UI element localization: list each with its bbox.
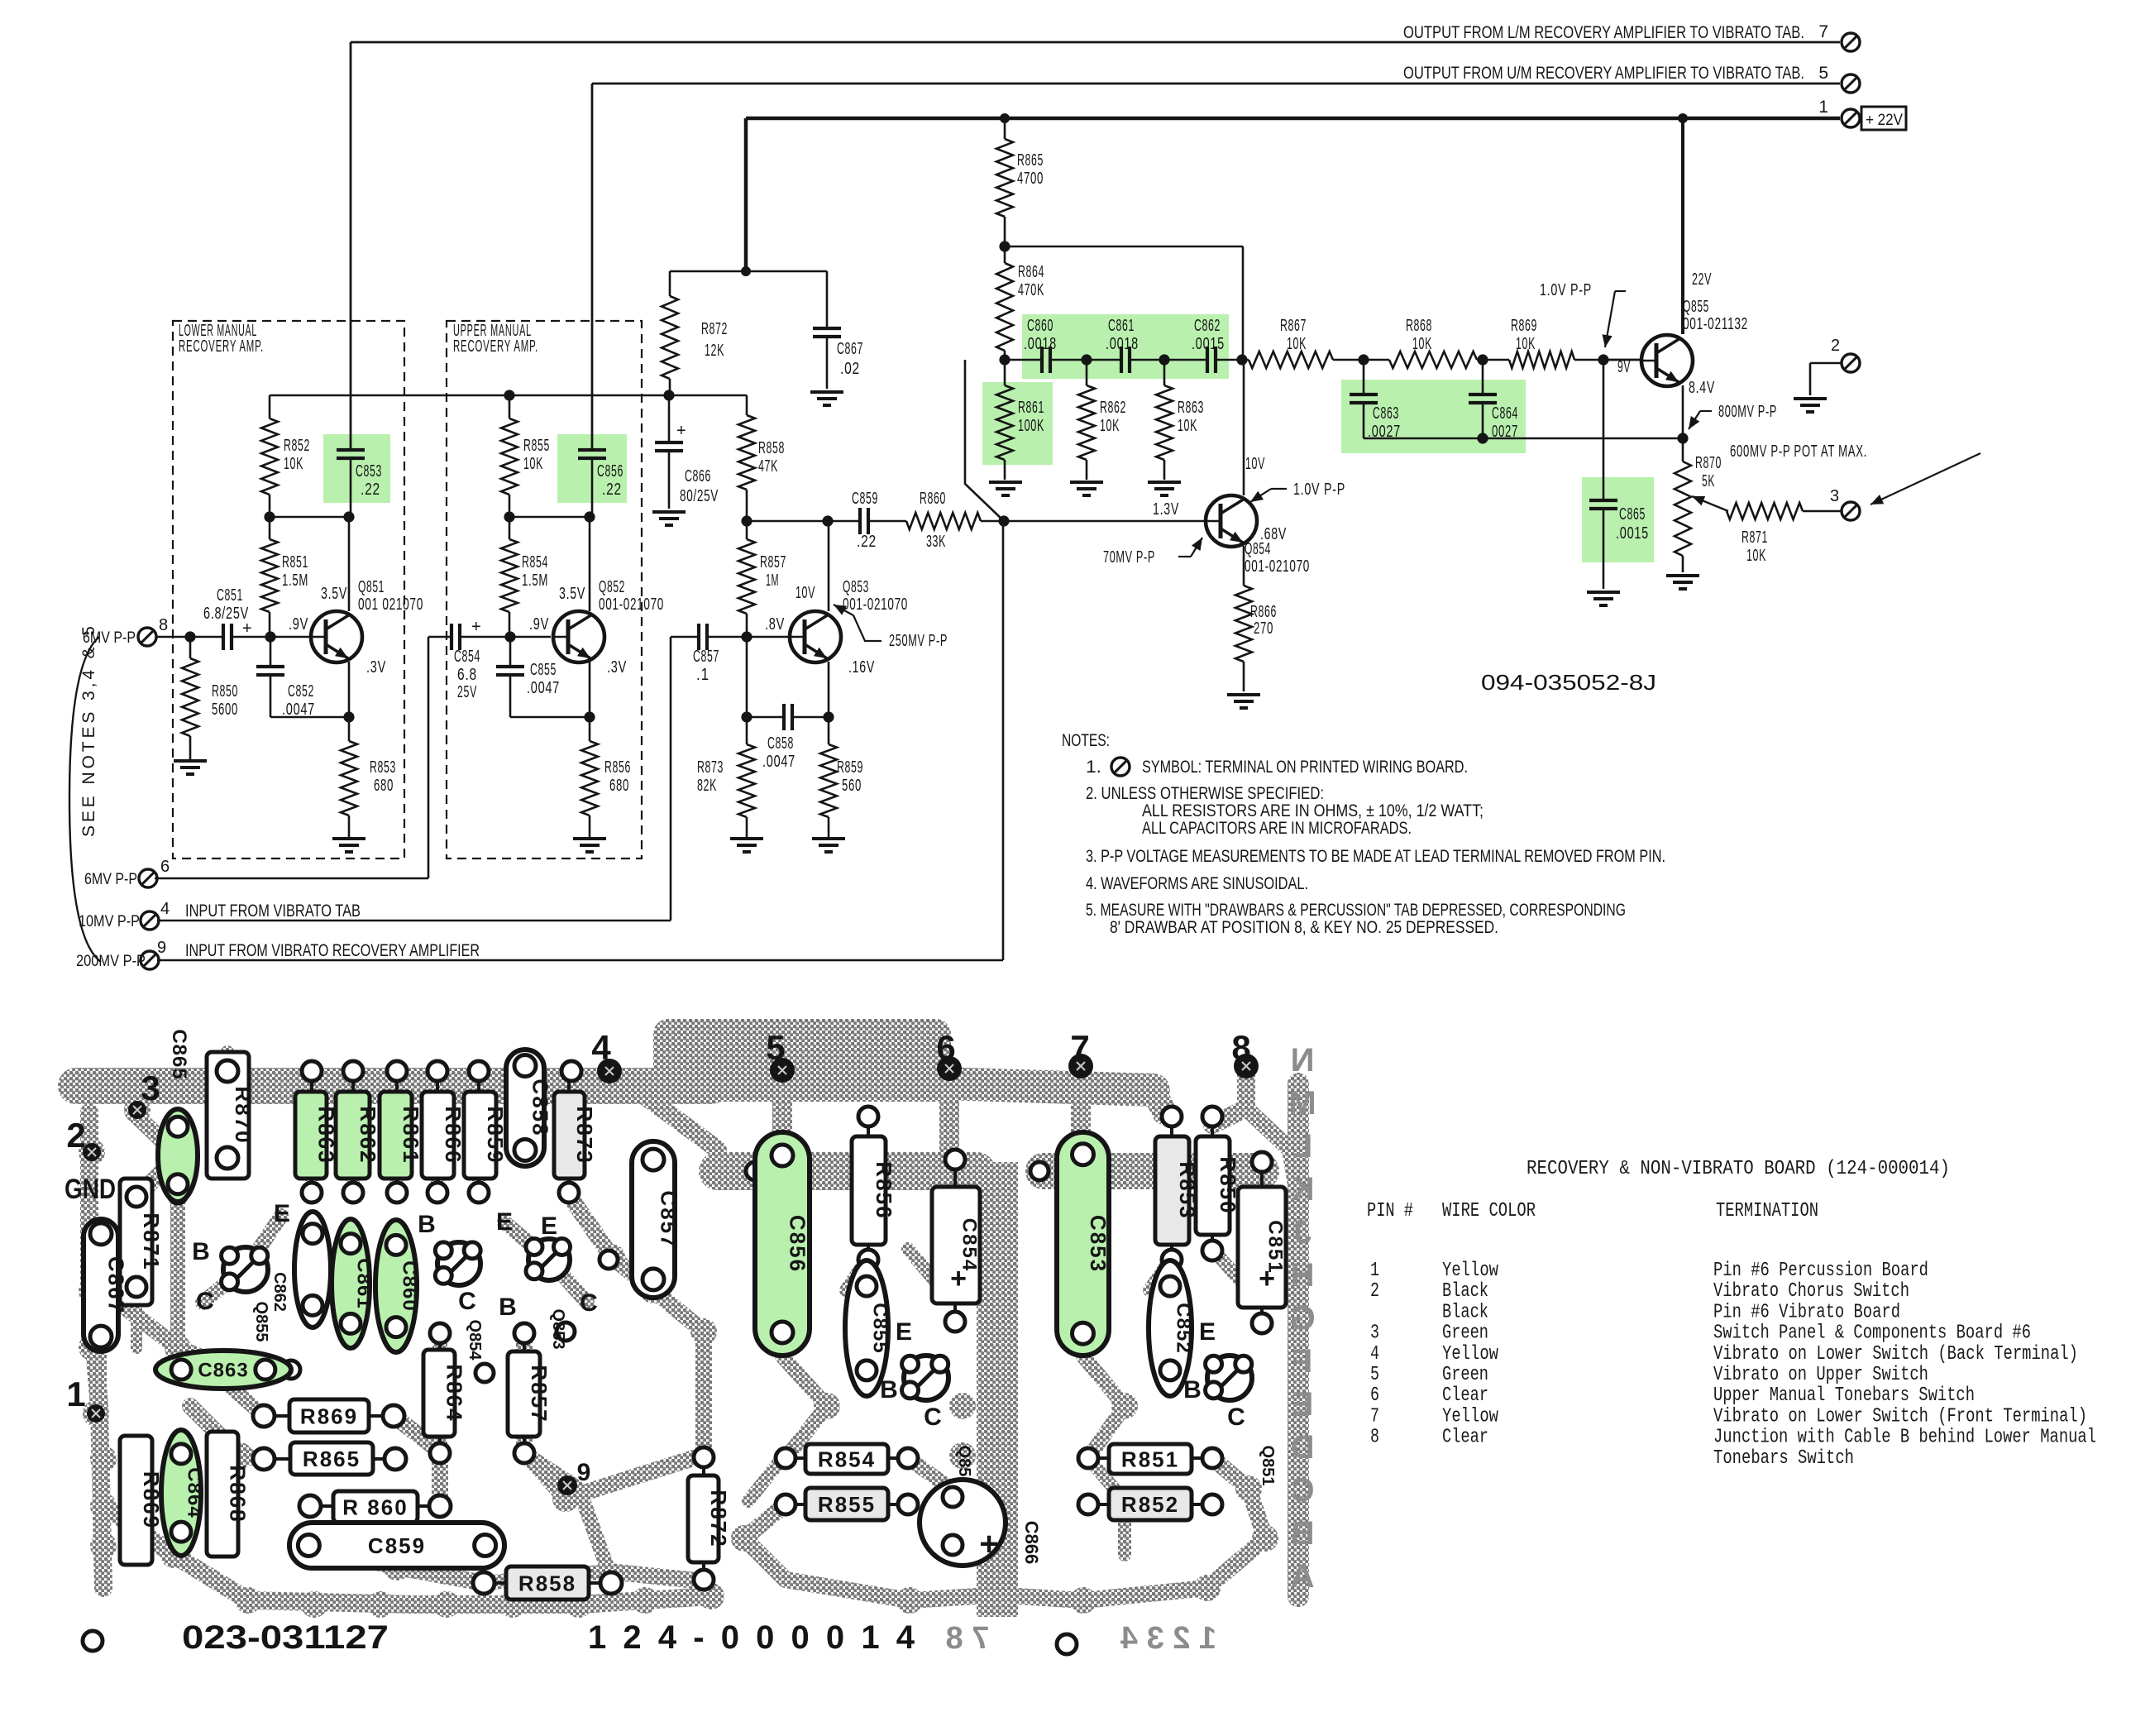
svg-text:5: 5 <box>1818 64 1829 83</box>
ground R861 <box>989 481 1022 484</box>
svg-text:5: 5 <box>1370 1364 1379 1386</box>
svg-text:INPUT FROM VIBRATO RECOVERY AM: INPUT FROM VIBRATO RECOVERY AMPLIFIER <box>185 941 480 960</box>
svg-text:8: 8 <box>1231 1028 1250 1067</box>
svg-text:3.5V: 3.5V <box>559 585 585 603</box>
wire input 8 <box>157 636 223 638</box>
PCB pad 5 <box>770 1058 795 1083</box>
node filter input <box>999 354 1010 365</box>
node base Q851 <box>265 631 275 642</box>
resistor R862 <box>1086 360 1088 385</box>
PCB mirrored numbers <box>946 1621 1217 1656</box>
svg-text:C864: C864 <box>1492 404 1518 423</box>
svg-text:R864: R864 <box>1018 263 1044 281</box>
terminal 2 <box>1842 354 1860 372</box>
svg-text:C859: C859 <box>852 490 878 508</box>
PCB capacitor C851 <box>1238 1187 1286 1308</box>
svg-text:1.5M: 1.5M <box>282 571 308 590</box>
svg-text:+: + <box>471 618 482 636</box>
svg-text:C860: C860 <box>1027 317 1053 335</box>
svg-text:6: 6 <box>936 1028 955 1067</box>
svg-text:Q854: Q854 <box>466 1320 484 1361</box>
svg-text:Pin #6 Percussion Board: Pin #6 Percussion Board <box>1713 1260 1928 1282</box>
svg-text:001-021070: 001-021070 <box>599 595 664 614</box>
svg-text:4: 4 <box>160 900 170 918</box>
svg-text:R860: R860 <box>920 490 946 508</box>
svg-text:.0047: .0047 <box>762 753 795 771</box>
resistor R853 <box>348 717 351 741</box>
svg-text:Vibrato on Lower Switch (Back: Vibrato on Lower Switch (Back Terminal) <box>1713 1343 2078 1365</box>
node C856 bottom <box>584 511 595 522</box>
svg-text:1M: 1M <box>766 571 779 590</box>
svg-text:R856: R856 <box>604 758 631 777</box>
PCB pad 4 <box>597 1059 622 1083</box>
svg-text:R858: R858 <box>518 1571 576 1595</box>
svg-text:R856: R856 <box>872 1161 896 1219</box>
svg-text:.22: .22 <box>602 481 622 499</box>
svg-text:WIRE COLOR: WIRE COLOR <box>1442 1200 1536 1222</box>
PCB resistor R864 <box>423 1350 455 1437</box>
PCB capacitor C854 <box>932 1187 980 1303</box>
node R851 top <box>264 511 275 522</box>
svg-text:7: 7 <box>1070 1028 1089 1067</box>
svg-text:+: + <box>979 1526 998 1562</box>
resistor R854 <box>509 517 511 539</box>
svg-text:Pin #6 Vibrato Board: Pin #6 Vibrato Board <box>1713 1301 1900 1323</box>
wire C855 to emitter <box>510 716 590 719</box>
ground R870 <box>1666 574 1699 577</box>
svg-text:5K: 5K <box>1702 472 1715 490</box>
wire emitter Q853 <box>828 662 830 717</box>
wire cap chain <box>1005 359 1042 361</box>
svg-text:TERMINATION: TERMINATION <box>1716 1200 1818 1222</box>
capacitor C867 <box>826 271 829 328</box>
svg-text:Tonebars Switch: Tonebars Switch <box>1713 1447 1854 1470</box>
svg-text:GND: GND <box>64 1174 116 1205</box>
svg-text:NOTES:: NOTES: <box>1062 731 1110 750</box>
svg-text:8.4V: 8.4V <box>1689 379 1715 397</box>
PCB resistor R851 <box>1109 1444 1192 1474</box>
highlight C856 <box>557 434 627 503</box>
svg-text:R871: R871 <box>139 1212 164 1270</box>
wire collector Q851 <box>348 517 351 611</box>
svg-text:4700: 4700 <box>1017 170 1044 188</box>
ground R853 <box>332 837 365 840</box>
svg-text:C866: C866 <box>685 467 711 485</box>
svg-text:C857: C857 <box>693 648 719 666</box>
svg-text:R851: R851 <box>282 553 308 571</box>
svg-text:Switch Panel & Components Boar: Switch Panel & Components Board #6 <box>1713 1322 2031 1345</box>
svg-text:Q853: Q853 <box>843 578 869 596</box>
PCB capacitor C858 <box>506 1050 544 1166</box>
svg-text:B: B <box>1291 1515 1315 1552</box>
wire emitter Q852 <box>589 662 591 717</box>
svg-text:Vibrato on Upper Switch: Vibrato on Upper Switch <box>1713 1364 1928 1386</box>
svg-text:6: 6 <box>1370 1384 1379 1407</box>
PCB resistor R862 <box>336 1092 370 1179</box>
svg-text:Q855: Q855 <box>252 1302 270 1342</box>
svg-text:7 8: 7 8 <box>946 1621 990 1656</box>
resistor R852 <box>269 395 271 418</box>
svg-text:.0015: .0015 <box>1616 524 1649 543</box>
wire junction row stage1 <box>270 516 349 519</box>
svg-text:200MV P-P: 200MV P-P <box>76 953 146 970</box>
svg-text:R868: R868 <box>225 1465 250 1523</box>
wire input stage3 <box>707 636 790 638</box>
svg-text:R869: R869 <box>1511 317 1537 335</box>
wire input 9 riser <box>157 959 1003 962</box>
svg-text:1: 1 <box>66 1375 85 1413</box>
resistor R860 <box>906 513 981 529</box>
svg-text:J: J <box>1293 1214 1311 1251</box>
node R854 top <box>504 511 514 522</box>
arrow 1.0V P-P at Q854 <box>1271 488 1287 490</box>
highlight C863 C864 <box>1341 380 1526 453</box>
wire emitter Q855 <box>1682 385 1684 438</box>
capacitor C866 <box>668 395 671 442</box>
PCB pad 2 <box>83 1143 101 1161</box>
dashed box lower manual recovery amp <box>173 321 404 858</box>
node R867 R868 C863 <box>1358 354 1369 365</box>
capacitor C853 <box>337 448 365 452</box>
transistor Q853 <box>790 611 841 662</box>
svg-text:R852: R852 <box>284 437 310 455</box>
svg-text:R858: R858 <box>758 439 785 457</box>
PCB resistor R861 <box>380 1092 412 1179</box>
svg-text:001-021070: 001-021070 <box>843 595 908 614</box>
svg-text:680: 680 <box>609 777 629 795</box>
svg-text:C867: C867 <box>103 1256 128 1314</box>
svg-text:.0018: .0018 <box>1106 335 1139 353</box>
terminal 6 <box>139 869 157 887</box>
resistor R869 <box>1509 352 1574 368</box>
svg-text:.8V: .8V <box>765 615 785 634</box>
svg-text:C857: C857 <box>656 1190 681 1248</box>
wire collector Q854 <box>1243 360 1245 495</box>
resistor R859 <box>828 717 830 744</box>
svg-text:C856: C856 <box>785 1215 810 1273</box>
svg-text:4: 4 <box>591 1028 611 1067</box>
svg-text:10K: 10K <box>1746 547 1766 565</box>
capacitor C854 <box>450 624 453 650</box>
ground R856 <box>573 837 606 840</box>
ground R863 <box>1148 481 1181 484</box>
resistor R856 <box>589 717 591 741</box>
PCB pad 3 <box>128 1101 146 1119</box>
PCB capacitor C860 <box>375 1220 417 1352</box>
svg-text:8' DRAWBAR AT POSITION 8, & KE: 8' DRAWBAR AT POSITION 8, & KEY NO. 25 D… <box>1110 918 1498 937</box>
svg-text:.0018: .0018 <box>1024 335 1057 353</box>
emitter network stage3 <box>747 716 784 719</box>
svg-text:4: 4 <box>1370 1343 1379 1365</box>
resistor R872 <box>669 271 671 296</box>
PCB resistor R852 <box>1109 1488 1192 1520</box>
svg-text:R857: R857 <box>527 1365 552 1423</box>
PCB capacitor C866 <box>920 1480 1006 1566</box>
PCB trace beads <box>79 1097 1278 1618</box>
wire feedback riser to filter node <box>965 360 1004 521</box>
svg-text:7: 7 <box>1370 1405 1379 1428</box>
svg-text:Green: Green <box>1442 1322 1488 1345</box>
svg-text:G: G <box>1289 1300 1315 1337</box>
node input R850 <box>184 631 195 642</box>
svg-text:6.8/25V: 6.8/25V <box>203 605 249 623</box>
svg-text:3.5V: 3.5V <box>321 585 347 603</box>
svg-text:82K: 82K <box>697 777 717 795</box>
highlight C860 C861 C862 <box>1022 314 1229 379</box>
svg-text:1.: 1. <box>1086 758 1101 777</box>
svg-text:7: 7 <box>1818 22 1829 41</box>
PCB capacitor C857 <box>632 1141 675 1298</box>
PCB resistor R860 <box>333 1491 418 1523</box>
PCB capacitor C862 <box>294 1212 331 1327</box>
terminal 7 <box>1842 33 1860 51</box>
svg-text:+ 22V: + 22V <box>1866 112 1903 129</box>
wire base Q854 <box>1004 520 1206 523</box>
svg-text:001-021132: 001-021132 <box>1683 315 1748 333</box>
svg-text:N: N <box>1291 1042 1315 1078</box>
resistor R868 <box>1364 359 1389 361</box>
wire input 4 riser <box>157 920 671 922</box>
svg-text:Clear: Clear <box>1442 1384 1488 1407</box>
capacitor C860 <box>1040 347 1044 373</box>
PCB resistor R863 <box>295 1092 327 1179</box>
node emitter junction Q851 <box>343 711 354 722</box>
svg-text:ALL CAPACITORS ARE IN MICROFAR: ALL CAPACITORS ARE IN MICROFARADS. <box>1142 819 1412 838</box>
svg-text:C865: C865 <box>168 1029 190 1079</box>
svg-text:R852: R852 <box>1121 1492 1179 1517</box>
svg-text:C860: C860 <box>399 1260 421 1311</box>
svg-text:R859: R859 <box>837 758 863 777</box>
svg-text:10K: 10K <box>523 455 543 473</box>
PCB resistor R869 vertical <box>120 1436 152 1565</box>
node collector Q853 <box>822 515 833 526</box>
node R869 C865 Q855 <box>1598 354 1608 365</box>
svg-text:Vibrato Chorus Switch: Vibrato Chorus Switch <box>1713 1280 1909 1303</box>
wire base Q855 <box>1603 359 1641 361</box>
svg-text:600MV P-P POT AT MAX.: 600MV P-P POT AT MAX. <box>1730 442 1867 461</box>
svg-text:100K: 100K <box>1018 417 1044 435</box>
PCB resistor R870 <box>207 1052 249 1179</box>
ground C866 <box>652 510 686 514</box>
svg-text:R869: R869 <box>139 1471 164 1529</box>
PCB resistor R857 <box>508 1351 540 1437</box>
svg-text:H: H <box>1291 1257 1315 1294</box>
wire emitter Q854 <box>1243 546 1245 586</box>
svg-text:D: D <box>1291 1429 1315 1466</box>
node base Q853 <box>741 631 752 642</box>
node C858 right <box>823 711 834 722</box>
svg-text:R854: R854 <box>522 553 548 571</box>
PCB resistor R868 <box>207 1432 238 1557</box>
PCB capacitor C863 <box>155 1351 291 1389</box>
svg-text:R865: R865 <box>303 1447 361 1471</box>
svg-text:R870: R870 <box>231 1086 256 1144</box>
svg-text:C: C <box>1291 1472 1315 1509</box>
svg-text:Q851: Q851 <box>358 578 385 596</box>
svg-text:270: 270 <box>1254 619 1273 638</box>
svg-text:Q854: Q854 <box>1245 540 1271 558</box>
svg-text:70MV P-P: 70MV P-P <box>1103 548 1155 567</box>
PCB resistor R855 <box>805 1488 888 1520</box>
ground C865 <box>1587 591 1620 594</box>
svg-text:R863: R863 <box>1178 399 1204 417</box>
arrow 250MV P-P <box>853 615 881 641</box>
svg-text:C853: C853 <box>356 462 382 481</box>
svg-text:3: 3 <box>1370 1322 1379 1345</box>
svg-text:8: 8 <box>1370 1427 1379 1449</box>
ground R873 <box>730 837 763 840</box>
svg-text:C866: C866 <box>1021 1521 1042 1565</box>
svg-text:250MV P-P: 250MV P-P <box>889 632 948 650</box>
svg-text:SYMBOL: TERMINAL ON PRINTED WI: SYMBOL: TERMINAL ON PRINTED WIRING BOARD… <box>1142 758 1468 777</box>
svg-text:1: 1 <box>1818 98 1829 117</box>
wire C852 to emitter <box>270 716 349 719</box>
ground R862 <box>1070 481 1103 484</box>
svg-text:F: F <box>1292 1343 1312 1380</box>
PCB capacitor C861 <box>332 1219 370 1348</box>
svg-text:3: 3 <box>1830 487 1840 505</box>
svg-text:Yellow: Yellow <box>1442 1343 1498 1365</box>
svg-text:C: C <box>1227 1404 1245 1431</box>
svg-text:023-031127: 023-031127 <box>182 1619 389 1656</box>
resistor R866 <box>1235 586 1252 662</box>
svg-text:094-035052-8J: 094-035052-8J <box>1481 670 1656 695</box>
PCB pads component row <box>302 1061 581 1203</box>
node R857 top <box>741 515 752 526</box>
transistor Q852 <box>553 611 604 662</box>
svg-text:C863: C863 <box>198 1360 248 1382</box>
svg-text:R866: R866 <box>441 1106 466 1164</box>
svg-text:A: A <box>1291 1558 1315 1595</box>
terminal 9 <box>141 951 159 969</box>
svg-text:R872: R872 <box>701 320 728 338</box>
svg-text:5. MEASURE WITH "DRAWBARS & PE: 5. MEASURE WITH "DRAWBARS & PERCUSSION" … <box>1086 901 1626 920</box>
wire R865 to C862 node <box>1005 246 1243 248</box>
svg-text:PIN #: PIN # <box>1367 1200 1413 1222</box>
PCB resistor R859 <box>464 1092 496 1179</box>
wire collector supply bus <box>270 395 747 397</box>
svg-text:B: B <box>418 1211 436 1238</box>
ground R866 <box>1227 693 1260 696</box>
svg-text:800MV P-P: 800MV P-P <box>1718 403 1777 421</box>
PCB resistor R866 <box>422 1092 454 1179</box>
PCB resistor R853 <box>1155 1136 1189 1245</box>
svg-text:E: E <box>896 1318 912 1346</box>
svg-text:C856: C856 <box>597 462 623 481</box>
svg-text:Black: Black <box>1442 1301 1488 1323</box>
PCB transistor Q853 <box>528 1239 570 1280</box>
PCB resistor R856 <box>852 1136 886 1245</box>
PCB resistor R871 <box>120 1179 152 1305</box>
svg-text:10K: 10K <box>1287 335 1307 353</box>
PCB resistor R865 <box>290 1442 373 1475</box>
svg-text:R867: R867 <box>1280 317 1307 335</box>
svg-text:10K: 10K <box>284 455 303 473</box>
PCB resistor R873 <box>554 1092 585 1179</box>
svg-text:9: 9 <box>577 1459 591 1486</box>
node R868 R869 C864 <box>1477 354 1488 365</box>
svg-text:C867: C867 <box>837 340 863 358</box>
svg-text:E: E <box>541 1212 557 1240</box>
svg-text:3: 3 <box>141 1069 160 1107</box>
brace inputs <box>69 637 101 962</box>
svg-text:10K: 10K <box>1412 335 1432 353</box>
svg-text:+: + <box>950 1263 967 1294</box>
svg-text:R865: R865 <box>1017 151 1044 170</box>
capacitor C862 <box>1206 347 1209 373</box>
svg-text:E: E <box>274 1200 290 1227</box>
svg-text:L: L <box>1292 1128 1312 1165</box>
PCB trace network <box>76 1019 1298 1617</box>
svg-text:R864: R864 <box>442 1364 466 1422</box>
svg-text:R855: R855 <box>818 1492 876 1517</box>
node C862 R867 <box>1236 354 1247 365</box>
svg-text:R857: R857 <box>760 553 786 571</box>
svg-text:Q853: Q853 <box>549 1309 567 1350</box>
PCB pad 7 <box>1068 1054 1093 1078</box>
resistor R865 <box>1004 118 1006 139</box>
svg-text:Yellow: Yellow <box>1442 1405 1498 1428</box>
node base Q852 <box>504 631 515 642</box>
svg-text:5: 5 <box>766 1028 785 1067</box>
svg-text:C853: C853 <box>1086 1215 1111 1273</box>
svg-text:10K: 10K <box>1178 417 1197 435</box>
svg-text:.0047: .0047 <box>527 679 560 697</box>
svg-text:C861: C861 <box>1108 317 1135 335</box>
svg-text:R866: R866 <box>1250 603 1277 621</box>
svg-text:10V: 10V <box>1245 455 1265 473</box>
svg-text:INPUT FROM VIBRATO TAB: INPUT FROM VIBRATO TAB <box>185 901 361 921</box>
svg-text:1.3V: 1.3V <box>1153 500 1179 519</box>
svg-text:R873: R873 <box>697 758 724 777</box>
resistor R857 <box>746 521 748 539</box>
node rail Q855 collector tap <box>1678 113 1688 123</box>
capacitor C856 <box>578 448 606 452</box>
svg-text:Q852: Q852 <box>599 578 625 596</box>
PCB mirrored letter column <box>1288 1042 1316 1595</box>
svg-text:Q855: Q855 <box>1683 298 1709 316</box>
node bus C866 <box>663 390 674 400</box>
svg-text:.02: .02 <box>840 360 860 378</box>
capacitor C859 <box>858 508 862 534</box>
transistor Q851 <box>311 611 362 662</box>
capacitor C863 <box>1363 360 1365 395</box>
capacitor C864 <box>1482 360 1484 395</box>
svg-text:R873: R873 <box>572 1106 597 1164</box>
wire +22V rail <box>746 117 1840 121</box>
svg-text:Yellow: Yellow <box>1442 1260 1498 1282</box>
svg-text:C: C <box>924 1404 942 1431</box>
terminal 1 <box>1842 109 1860 127</box>
svg-text:B: B <box>1183 1376 1202 1404</box>
ground terminal 2 <box>1794 397 1827 400</box>
svg-text:+: + <box>676 422 687 440</box>
svg-text:Junction with Cable B behind L: Junction with Cable B behind Lower Manua… <box>1713 1427 2096 1449</box>
wire input stage2 <box>460 636 551 638</box>
svg-text:10K: 10K <box>1516 335 1536 353</box>
PCB pad 8 <box>1234 1054 1259 1078</box>
node C858 left <box>741 711 752 722</box>
svg-text:25V: 25V <box>457 683 477 701</box>
capacitor C851 <box>222 624 225 650</box>
svg-text:9V: 9V <box>1617 358 1631 376</box>
capacitor C861 <box>1120 347 1123 373</box>
node rail corner <box>741 266 751 276</box>
svg-text:22V: 22V <box>1692 270 1712 289</box>
PCB label 023-031127 <box>83 1631 103 1651</box>
wire collector Q852 <box>589 517 591 611</box>
svg-text:680: 680 <box>374 777 394 795</box>
